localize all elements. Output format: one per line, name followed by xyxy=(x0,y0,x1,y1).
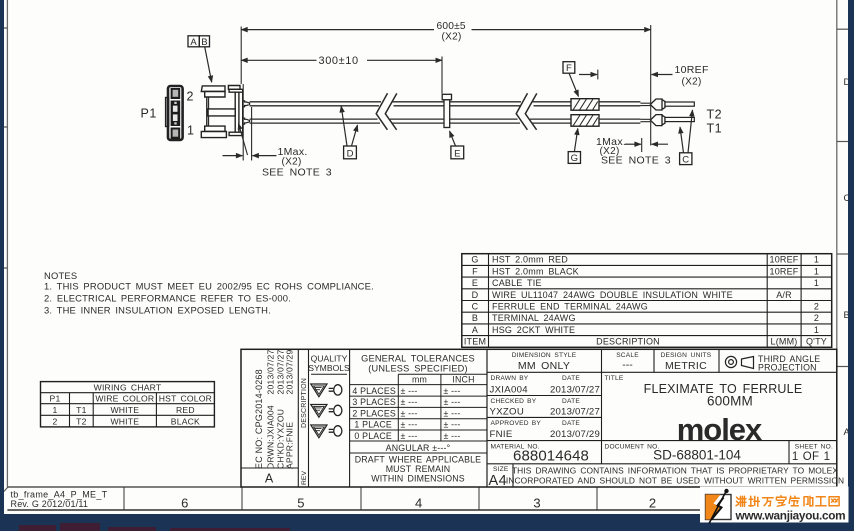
connector P1 front view xyxy=(166,86,183,140)
svg-text:G: G xyxy=(571,153,578,164)
svg-text:P1: P1 xyxy=(50,394,61,404)
svg-text:---: --- xyxy=(622,359,633,371)
svg-text:tb_frame_A4_P_ME_T: tb_frame_A4_P_ME_T xyxy=(11,490,108,500)
dimension 300±10 xyxy=(241,55,442,67)
svg-text:WIRE UL11047 24AWG DOUBLE INSU: WIRE UL11047 24AWG DOUBLE INSULATION WHI… xyxy=(492,290,733,300)
ferrule terminal T1 body xyxy=(650,115,665,126)
svg-text:DATE: DATE xyxy=(562,375,580,382)
svg-text:2013/07/27: 2013/07/27 xyxy=(550,407,600,418)
svg-text:C: C xyxy=(472,302,479,312)
svg-text:HSG 2CKT WHITE: HSG 2CKT WHITE xyxy=(492,325,575,335)
svg-text:1: 1 xyxy=(53,405,58,415)
proprietary note xyxy=(506,466,844,486)
svg-text:Rev. G 2012/01/11: Rev. G 2012/01/11 xyxy=(11,499,89,509)
svg-text:CABLE TIE: CABLE TIE xyxy=(492,278,542,288)
svg-text:HST 2.0mm RED: HST 2.0mm RED xyxy=(492,255,568,265)
extension line at connector right xyxy=(242,84,244,161)
svg-text:± ---: ± --- xyxy=(401,408,418,418)
svg-text:CHECKED BY: CHECKED BY xyxy=(491,398,537,405)
quality symbols cell xyxy=(308,354,350,375)
ferrule terminal T2 body xyxy=(650,99,665,110)
svg-text:PROJECTION: PROJECTION xyxy=(758,362,817,372)
svg-text:HST 2.0mm BLACK: HST 2.0mm BLACK xyxy=(492,266,579,276)
cable break symbol right xyxy=(516,93,537,130)
extension line above connector xyxy=(240,27,242,85)
wire 2 top segment a xyxy=(250,102,381,106)
svg-text:E: E xyxy=(472,278,478,288)
balloon label A B xyxy=(188,36,212,82)
wiring chart table xyxy=(41,382,215,427)
svg-text:EC NO: CPG2014-0268: EC NO: CPG2014-0268 xyxy=(254,369,264,469)
wiring chart text xyxy=(50,383,213,427)
cable break symbol left xyxy=(376,93,397,130)
svg-text:T1: T1 xyxy=(76,405,86,415)
frame border left line xyxy=(0,0,8,492)
svg-text:(UNLESS SPECIFIED): (UNLESS SPECIFIED) xyxy=(368,364,468,374)
svg-text:WIRING CHART: WIRING CHART xyxy=(94,383,162,393)
frame border right line xyxy=(837,0,851,510)
svg-text:BLACK: BLACK xyxy=(171,417,200,427)
svg-text:± ---: ± --- xyxy=(444,408,461,418)
svg-text:(X2): (X2) xyxy=(682,76,702,87)
svg-text:10REF: 10REF xyxy=(675,64,709,76)
svg-text:THIS DRAWING CONTAINS INFORMAT: THIS DRAWING CONTAINS INFORMATION THAT I… xyxy=(512,466,838,476)
title block outer border xyxy=(241,349,837,487)
svg-text:2: 2 xyxy=(814,313,819,323)
svg-text:600±5: 600±5 xyxy=(437,21,466,32)
P1 pin stub top xyxy=(243,101,250,107)
svg-text:DRAFT WHERE APPLICABLE: DRAFT WHERE APPLICABLE xyxy=(355,454,481,464)
maroon remnant marks at bottom xyxy=(19,523,290,531)
svg-text:1: 1 xyxy=(814,325,819,335)
svg-text:± ---: ± --- xyxy=(444,431,461,441)
svg-text:DATE: DATE xyxy=(562,398,580,405)
third angle projection symbol xyxy=(725,356,753,368)
svg-text:2: 2 xyxy=(649,496,656,511)
svg-text:D: D xyxy=(347,148,354,159)
svg-text:JXIA004: JXIA004 xyxy=(490,384,529,395)
watermark white box xyxy=(700,487,849,523)
svg-text:DIMENSION STYLE: DIMENSION STYLE xyxy=(512,352,577,359)
general tolerances heading xyxy=(361,354,475,374)
svg-text:www.wanjiayou.com: www.wanjiayou.com xyxy=(735,509,846,523)
BOM header row xyxy=(464,337,827,347)
svg-text:2013/07/29: 2013/07/29 xyxy=(550,429,600,440)
dimension 10REF (X2) xyxy=(579,64,709,87)
svg-text:3. THE INNER INSULATION EXPOSE: 3. THE INNER INSULATION EXPOSED LENGTH. xyxy=(44,305,271,316)
svg-text:SYMBOLS: SYMBOLS xyxy=(308,363,350,373)
svg-text:± ---: ± --- xyxy=(444,386,461,396)
svg-text:3: 3 xyxy=(533,496,540,511)
svg-text:MM ONLY: MM ONLY xyxy=(518,360,570,372)
frame name text xyxy=(11,490,108,510)
svg-text:WITHIN DIMENSIONS: WITHIN DIMENSIONS xyxy=(371,473,464,483)
svg-text:600MM: 600MM xyxy=(707,394,753,409)
svg-text:DRAWN BY: DRAWN BY xyxy=(491,375,529,382)
svg-text:5: 5 xyxy=(297,496,304,511)
wire 2 top segment b xyxy=(392,102,521,106)
wire 2 after sleeve xyxy=(599,102,640,106)
wire 1 bottom segment c xyxy=(530,119,571,123)
svg-text:6: 6 xyxy=(181,496,188,511)
svg-text:REV: REV xyxy=(301,471,308,485)
watermark logo square xyxy=(706,489,732,524)
balloon label E with leader to cable tie xyxy=(450,131,464,159)
ferrule terminal T1 pin xyxy=(665,117,694,121)
svg-text:TERMINAL 24AWG: TERMINAL 24AWG xyxy=(492,313,576,323)
svg-text:1: 1 xyxy=(814,278,819,288)
svg-text:FNIE: FNIE xyxy=(490,429,513,440)
svg-text:P1: P1 xyxy=(141,107,157,121)
balloon label D with leaders to both wires xyxy=(341,106,357,159)
svg-text:688014648: 688014648 xyxy=(513,448,589,465)
svg-text:T2: T2 xyxy=(707,108,723,122)
extension line at cable tie xyxy=(441,57,443,94)
svg-text:2 PLACES: 2 PLACES xyxy=(352,408,396,418)
svg-text:B: B xyxy=(472,313,478,323)
svg-text:DESIGN UNITS: DESIGN UNITS xyxy=(661,352,712,359)
dimension 1Max right with note xyxy=(596,136,671,167)
svg-text:DESCRIPTION: DESCRIPTION xyxy=(301,378,308,428)
svg-text:SD-68801-104: SD-68801-104 xyxy=(653,448,741,463)
wire 1 after sleeve xyxy=(599,119,640,123)
balloon label F with leader to top sleeve xyxy=(563,62,579,97)
bottom zone strip xyxy=(7,487,836,510)
BOM row F xyxy=(472,266,819,276)
navy border bottom xyxy=(0,514,854,531)
svg-text:A: A xyxy=(190,37,197,48)
svg-text:FERRULE END TERMINAL 24AWG: FERRULE END TERMINAL 24AWG xyxy=(492,302,648,312)
P1 pin stub bottom xyxy=(243,118,250,124)
svg-text:DATE: DATE xyxy=(562,420,580,427)
quality symbol 3 xyxy=(311,425,342,438)
svg-text:METRIC: METRIC xyxy=(665,360,707,372)
ferrule terminal T2 pin xyxy=(665,102,694,106)
svg-text:10REF: 10REF xyxy=(769,255,798,265)
BOM row E xyxy=(472,278,819,288)
svg-text:NOTES: NOTES xyxy=(44,270,77,281)
navy border left xyxy=(0,0,4,531)
svg-text:Q'TY: Q'TY xyxy=(806,337,827,347)
BOM row D xyxy=(472,290,792,300)
svg-text:L(MM): L(MM) xyxy=(771,337,798,347)
svg-text:HST COLOR: HST COLOR xyxy=(159,394,212,404)
extension line at wire start xyxy=(251,107,253,161)
draft note xyxy=(355,454,481,483)
svg-text:± ---: ± --- xyxy=(401,386,418,396)
svg-text:2: 2 xyxy=(53,417,58,427)
svg-text:± ---: ± --- xyxy=(401,431,418,441)
svg-text:± ---: ± --- xyxy=(401,397,418,407)
svg-text:INCH: INCH xyxy=(452,375,474,385)
svg-text:APPROVED BY: APPROVED BY xyxy=(491,420,542,427)
balloon label C with leaders to both pins xyxy=(680,110,693,165)
notes text block xyxy=(44,270,374,316)
svg-text:ANGULAR ±---°: ANGULAR ±---° xyxy=(386,443,451,453)
svg-text:SCALE: SCALE xyxy=(616,352,639,359)
svg-text:DESCRIPTION: DESCRIPTION xyxy=(596,337,660,347)
svg-text:GENERAL TOLERANCES: GENERAL TOLERANCES xyxy=(361,354,475,364)
svg-text:± ---: ± --- xyxy=(401,420,418,430)
svg-text:1 PLACE: 1 PLACE xyxy=(354,420,392,430)
svg-text:INCORPORATED AND SHOULD NOT BE: INCORPORATED AND SHOULD NOT BE USED WITH… xyxy=(506,475,844,485)
svg-text:2. ELECTRICAL PERFORMANCE REFE: 2. ELECTRICAL PERFORMANCE REFER TO ES-00… xyxy=(44,293,291,304)
svg-text:G: G xyxy=(471,255,478,265)
svg-text:T2: T2 xyxy=(76,417,86,427)
cable tie xyxy=(442,94,451,127)
svg-text:2013/07/27: 2013/07/27 xyxy=(550,384,600,395)
svg-text:QUALITY: QUALITY xyxy=(311,354,348,364)
wire 1 bottom segment a xyxy=(250,119,380,123)
svg-text:DRWN:JXIA004: DRWN:JXIA004 xyxy=(266,405,276,469)
stripped conductor bottom xyxy=(640,119,650,121)
BOM row B xyxy=(472,313,819,323)
balloon label G with leader to bottom sleeve xyxy=(568,129,580,165)
svg-text:F: F xyxy=(472,266,478,276)
svg-text:APPR:FNIE: APPR:FNIE xyxy=(285,422,295,469)
stripped conductor top xyxy=(640,103,650,105)
svg-text:SIZE: SIZE xyxy=(493,466,509,473)
svg-text:A/R: A/R xyxy=(776,290,792,300)
svg-text:A4: A4 xyxy=(489,473,508,489)
svg-text:± ---: ± --- xyxy=(444,397,461,407)
title block right section lines xyxy=(487,349,837,487)
svg-text:MUST REMAIN: MUST REMAIN xyxy=(386,464,451,474)
svg-text:E: E xyxy=(454,148,460,159)
quality symbol 1 xyxy=(311,384,342,397)
svg-text:2: 2 xyxy=(187,90,194,104)
svg-text:A: A xyxy=(265,472,274,486)
leader arrow at bottom pin of P1 xyxy=(239,124,248,156)
watermark chinese text xyxy=(736,496,839,507)
svg-text:1. THIS PRODUCT MUST MEET EU 2: 1. THIS PRODUCT MUST MEET EU 2002/95 EC … xyxy=(44,281,374,292)
svg-text:T1: T1 xyxy=(707,122,723,136)
svg-text:1 OF 1: 1 OF 1 xyxy=(792,451,830,463)
wire 1 bottom segment b xyxy=(390,119,520,123)
navy border right xyxy=(848,0,854,531)
svg-text:A: A xyxy=(472,325,478,335)
svg-text:2013/07/27: 2013/07/27 xyxy=(266,349,276,394)
svg-text:(X2): (X2) xyxy=(442,32,462,43)
BOM row C xyxy=(472,302,819,312)
svg-text:D: D xyxy=(472,290,479,300)
svg-text:0 PLACE: 0 PLACE xyxy=(354,431,392,441)
svg-text:C: C xyxy=(682,154,689,165)
title block left revision column lines xyxy=(241,349,350,487)
BOM table xyxy=(462,254,832,348)
BOM row G xyxy=(471,255,819,265)
svg-text:SEE NOTE 3: SEE NOTE 3 xyxy=(262,167,332,179)
svg-text:SHEET NO.: SHEET NO. xyxy=(795,443,833,450)
svg-text:TITLE: TITLE xyxy=(605,375,624,382)
svg-text:± ---: ± --- xyxy=(444,420,461,430)
svg-text:WIRE COLOR: WIRE COLOR xyxy=(95,394,154,404)
quality symbol 2 xyxy=(311,405,342,418)
HST sleeve F (top, hatched) xyxy=(571,99,599,111)
dimension 1Max left with note xyxy=(223,146,332,179)
tolerance table text xyxy=(352,375,474,453)
svg-text:SEE NOTE 3: SEE NOTE 3 xyxy=(601,154,671,166)
svg-text:WHITE: WHITE xyxy=(110,417,139,427)
svg-text:4: 4 xyxy=(415,496,422,511)
svg-text:RED: RED xyxy=(176,405,195,415)
svg-text:10REF: 10REF xyxy=(769,266,798,276)
connector P1 side view xyxy=(201,86,242,138)
svg-text:mm: mm xyxy=(412,375,427,385)
svg-text:1: 1 xyxy=(814,255,819,265)
svg-text:DOCUMENT NO.: DOCUMENT NO. xyxy=(605,443,660,450)
svg-text:WHITE: WHITE xyxy=(110,405,139,415)
svg-text:YXZOU: YXZOU xyxy=(490,407,525,418)
svg-text:2: 2 xyxy=(814,302,819,312)
HST sleeve G (bottom, hatched) xyxy=(571,115,599,127)
svg-text:molex: molex xyxy=(677,412,763,447)
svg-text:2013/07/29: 2013/07/29 xyxy=(285,349,295,394)
svg-text:1: 1 xyxy=(187,124,194,138)
svg-text:1: 1 xyxy=(814,266,819,276)
extension line at wire end xyxy=(650,25,652,146)
svg-text:4 PLACES: 4 PLACES xyxy=(352,386,396,396)
svg-text:B: B xyxy=(201,37,207,48)
svg-text:F: F xyxy=(566,63,572,74)
BOM row A xyxy=(472,325,819,335)
dimension 600±5 (X2) xyxy=(241,21,651,43)
wire 2 top segment c xyxy=(532,102,571,106)
svg-text:3 PLACES: 3 PLACES xyxy=(352,397,396,407)
svg-text:300±10: 300±10 xyxy=(319,55,359,67)
tolerance table lines xyxy=(350,349,487,487)
svg-text:ITEM: ITEM xyxy=(464,337,486,347)
